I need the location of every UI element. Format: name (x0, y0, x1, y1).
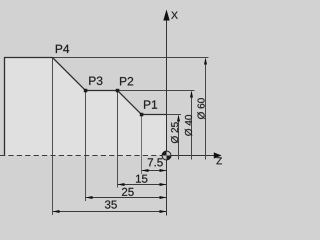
extension line from P4 down to 35-dimension (52, 58, 54, 216)
extension line from P3 down to 25-dimension (85, 91, 87, 202)
dimension 25 (86, 188, 167, 199)
dimension 15 (118, 175, 167, 186)
point P2 (116, 89, 120, 93)
extension line Ø60 top (53, 57, 209, 59)
Z axis (167, 155, 217, 157)
extension line Ø25 right (167, 114, 182, 116)
origin marker (workpiece zero) (162, 151, 171, 160)
label P4 (56, 45, 69, 53)
X axis (166, 13, 168, 216)
label P2 (120, 77, 133, 85)
dimension line Ø25 (171, 115, 180, 160)
point P3 (84, 89, 88, 93)
label P3 (89, 77, 102, 86)
dimension 7.5 (142, 158, 167, 172)
part outline (5, 58, 167, 156)
label P1 (144, 100, 157, 108)
part profile fill (5, 58, 167, 156)
centerline (dashed axis of rotation) (0, 155, 162, 157)
point P1 (140, 113, 144, 117)
dimension line Ø40 (185, 91, 193, 160)
X axis label (171, 12, 178, 19)
extension line from P2 down to 15-dimension (117, 91, 119, 188)
dimension line Ø60 (197, 58, 207, 160)
extension line Ø40 right (118, 90, 195, 92)
dimension 35 (53, 200, 167, 213)
extension line from P1 down to 7.5-dimension (141, 115, 143, 175)
Z axis label (216, 157, 221, 164)
